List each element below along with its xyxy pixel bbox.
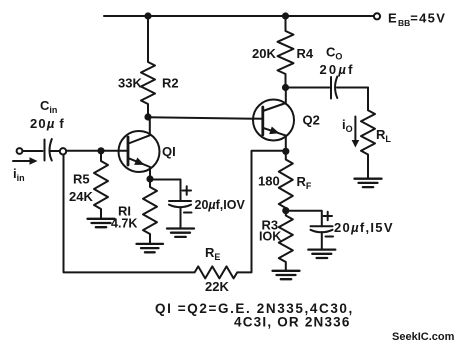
svg-text:20µ f: 20µ f	[30, 116, 65, 131]
wire top supply rail	[104, 15, 374, 17]
svg-text:22K: 22K	[205, 279, 229, 294]
transistor Q1	[119, 117, 160, 179]
node RF R3 junction	[282, 207, 289, 214]
ground RL	[355, 179, 382, 187]
arrow i in	[13, 160, 30, 162]
svg-text:Q2: Q2	[303, 113, 320, 128]
capacitor C 20uf10V	[169, 201, 191, 229]
svg-text:20µf: 20µf	[320, 62, 355, 77]
wire R4 node to Co	[286, 87, 330, 89]
resistor R2	[141, 16, 155, 117]
svg-text:R4: R4	[297, 46, 314, 61]
node R4 top junction	[282, 12, 289, 19]
svg-text:4C3I, OR 2N336: 4C3I, OR 2N336	[234, 315, 351, 330]
resistor R5	[94, 151, 108, 219]
svg-text:20µf,I5V: 20µf,I5V	[334, 220, 394, 235]
node R2 top junction	[144, 12, 151, 19]
svg-text:R5: R5	[73, 172, 90, 187]
svg-text:RF: RF	[297, 174, 312, 191]
svg-text:SeekIC.com: SeekIC.com	[392, 331, 455, 343]
svg-text:QI: QI	[162, 144, 176, 159]
terminal EBB	[374, 13, 380, 19]
node Q1 emitter junction	[146, 175, 153, 182]
ground R1	[137, 244, 164, 252]
svg-text:20K: 20K	[252, 46, 276, 61]
resistor R3	[279, 211, 293, 270]
svg-text:EBB=45V: EBB=45V	[388, 11, 446, 29]
polarity minus C15V	[326, 236, 334, 238]
polarity plus C10V	[183, 186, 192, 194]
svg-text:iin: iin	[13, 166, 25, 183]
svg-text:iO: iO	[342, 117, 353, 134]
node R4 bottom junction	[282, 84, 289, 91]
node R5 top junction	[97, 147, 104, 154]
svg-text:33K: 33K	[118, 76, 142, 91]
svg-text:CO: CO	[326, 45, 342, 62]
capacitor Co	[331, 77, 368, 99]
svg-text:RL: RL	[376, 127, 391, 144]
svg-text:20µf,IOV: 20µf,IOV	[195, 198, 246, 212]
node Q2 emitter junction	[282, 148, 289, 155]
wire R3 node to bypass cap	[286, 211, 322, 227]
svg-text:4.7K: 4.7K	[111, 217, 137, 231]
svg-text:Cin: Cin	[40, 98, 57, 115]
node R2 bottom junction	[144, 113, 151, 120]
resistor RL	[361, 88, 375, 179]
wire input node to Q1 base	[66, 150, 128, 152]
svg-text:R2: R2	[162, 76, 179, 91]
svg-text:RE: RE	[205, 245, 220, 262]
ground R3	[273, 271, 300, 279]
svg-text:24K: 24K	[69, 189, 93, 204]
svg-text:IOK: IOK	[259, 230, 281, 244]
arrow i o	[354, 117, 356, 141]
terminal input	[17, 148, 23, 154]
polarity minus C10V	[184, 212, 192, 214]
wire R2 to Q2 base	[148, 117, 263, 119]
ground C15V	[308, 250, 335, 258]
terminal input node	[60, 148, 66, 154]
resistor R1	[143, 179, 157, 244]
ground C10V	[167, 229, 194, 237]
wire input to Cin	[23, 150, 43, 152]
polarity plus C15V	[324, 212, 333, 220]
resistor RF	[279, 151, 293, 210]
capacitor Cin	[45, 139, 60, 161]
ground R5	[88, 219, 115, 227]
svg-text:180: 180	[258, 174, 280, 189]
resistor RE feedback loop wire	[64, 151, 286, 279]
wire Q1 emitter to bypass cap	[150, 180, 181, 202]
capacitor C 20uf15V	[311, 226, 333, 249]
transistor Q2	[253, 88, 294, 152]
resistor R4	[278, 16, 294, 87]
